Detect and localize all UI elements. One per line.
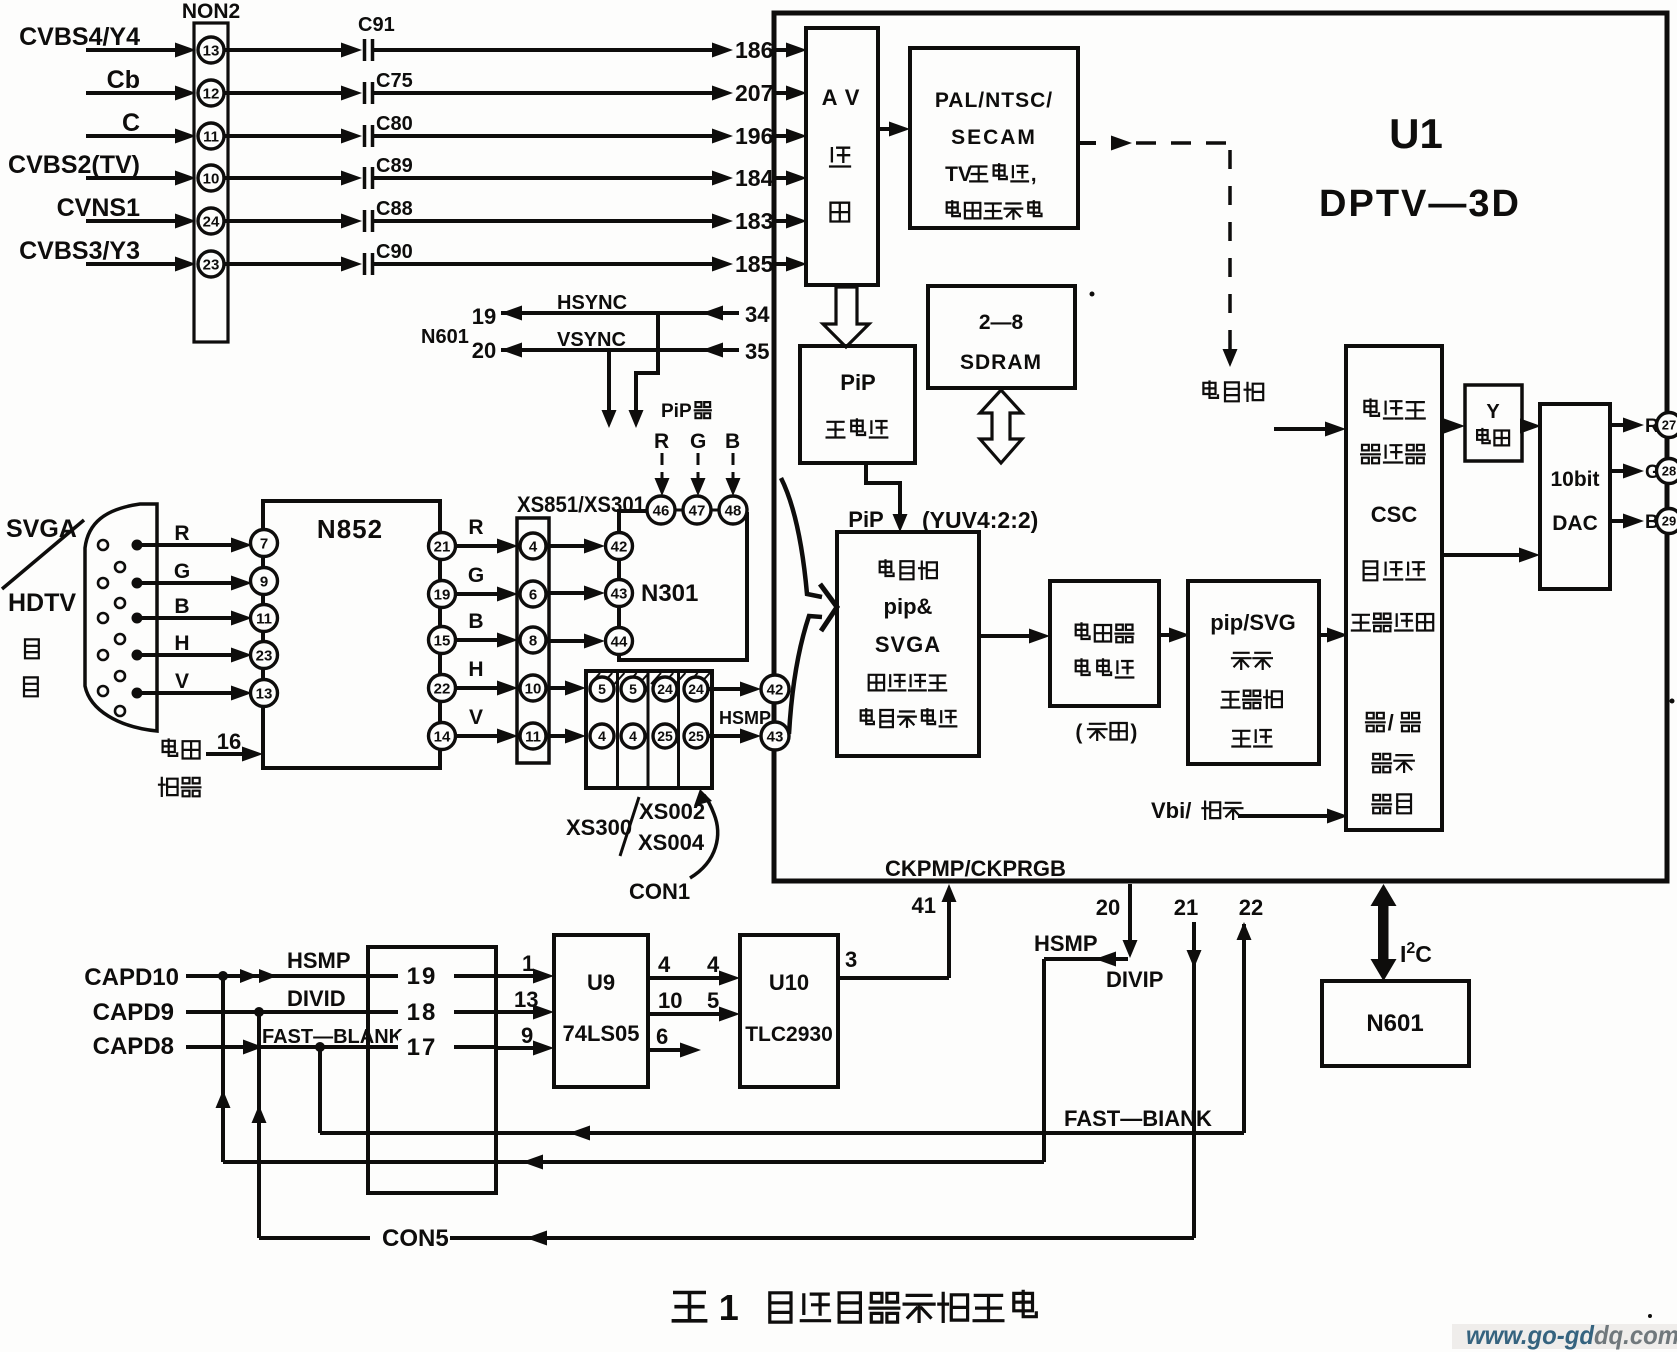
svg-text:10bit: 10bit: [1550, 468, 1599, 491]
svg-text:CVNS1: CVNS1: [57, 194, 140, 222]
svg-text:C75: C75: [376, 70, 413, 92]
svg-text:DIVIP: DIVIP: [1106, 967, 1163, 992]
svg-text:R: R: [174, 522, 189, 545]
svg-text:DAC: DAC: [1552, 512, 1598, 535]
svg-text:I2C: I2C: [1400, 940, 1432, 967]
svg-text:196: 196: [735, 123, 773, 149]
svg-text:10: 10: [525, 680, 542, 697]
svg-text:5: 5: [707, 988, 719, 1013]
svg-text:SDRAM: SDRAM: [960, 351, 1042, 374]
svg-text:pip&: pip&: [884, 594, 933, 619]
svg-text:35: 35: [745, 339, 769, 364]
svg-text:/: /: [1388, 710, 1394, 735]
svg-text:R: R: [468, 516, 483, 539]
svg-text:15: 15: [434, 632, 451, 649]
svg-text:U10: U10: [769, 970, 809, 995]
svg-text:25: 25: [688, 728, 704, 744]
svg-text:19: 19: [434, 586, 451, 603]
svg-text:19: 19: [407, 963, 438, 990]
svg-text:N601: N601: [1366, 1010, 1423, 1037]
svg-text:19: 19: [472, 304, 496, 329]
svg-text:20: 20: [472, 338, 496, 363]
svg-text:TLC2930: TLC2930: [745, 1023, 833, 1046]
svg-text:HDTV: HDTV: [8, 589, 76, 617]
svg-text:PiP: PiP: [848, 507, 883, 532]
svg-text:24: 24: [657, 681, 673, 697]
svg-text:N301: N301: [641, 580, 698, 607]
svg-text:R: R: [654, 430, 669, 453]
svg-text:9: 9: [260, 573, 268, 590]
svg-text:41: 41: [912, 893, 936, 918]
svg-text:42: 42: [611, 538, 628, 555]
svg-text:SECAM: SECAM: [951, 126, 1037, 149]
svg-text:22: 22: [1239, 895, 1263, 920]
svg-text:N601: N601: [421, 326, 469, 348]
svg-text:1: 1: [522, 951, 534, 976]
svg-text:V: V: [469, 706, 483, 729]
svg-text:C90: C90: [376, 241, 413, 263]
svg-text:A V: A V: [822, 85, 861, 110]
svg-text:4: 4: [629, 728, 637, 744]
svg-text:7: 7: [260, 535, 268, 552]
svg-text:21: 21: [1174, 895, 1198, 920]
svg-text:23: 23: [203, 256, 220, 273]
svg-text:(YUV4:2:2): (YUV4:2:2): [922, 507, 1038, 533]
svg-text:42: 42: [767, 681, 784, 698]
svg-text:9: 9: [521, 1023, 533, 1048]
svg-text:): ): [1130, 721, 1137, 744]
svg-text:CSC: CSC: [1371, 502, 1418, 527]
svg-text:,: ,: [1031, 163, 1037, 186]
svg-text:DPTV—3D: DPTV—3D: [1319, 183, 1521, 225]
svg-text:184: 184: [735, 165, 774, 191]
svg-text:8: 8: [529, 632, 537, 649]
svg-text:HSMP: HSMP: [287, 948, 351, 973]
svg-text:H: H: [174, 632, 189, 655]
svg-text:23: 23: [256, 647, 273, 664]
svg-text:FAST—BIANK: FAST—BIANK: [1064, 1106, 1212, 1131]
svg-text:VSYNC: VSYNC: [557, 329, 626, 351]
svg-text:www.go-gddq.com: www.go-gddq.com: [1466, 1320, 1677, 1350]
svg-text:43: 43: [611, 585, 628, 602]
svg-text:SVGA: SVGA: [875, 632, 941, 657]
svg-text:186: 186: [735, 37, 773, 63]
svg-text:C80: C80: [376, 113, 413, 135]
svg-text:FAST—BLANK: FAST—BLANK: [262, 1026, 404, 1048]
svg-text:10: 10: [658, 988, 682, 1013]
svg-text:B: B: [468, 610, 483, 633]
svg-text:G: G: [468, 564, 484, 587]
svg-text:2—8: 2—8: [979, 311, 1024, 334]
svg-text:13: 13: [256, 685, 273, 702]
svg-text:185: 185: [735, 251, 774, 277]
svg-text:5: 5: [598, 681, 606, 697]
svg-text:HSMP: HSMP: [1034, 931, 1098, 956]
svg-text:Vbi/: Vbi/: [1151, 798, 1191, 823]
svg-text:11: 11: [256, 610, 272, 627]
svg-text:20: 20: [1096, 895, 1120, 920]
svg-text:HSMP: HSMP: [719, 708, 771, 728]
svg-text:11: 11: [525, 728, 541, 745]
svg-text:H: H: [468, 658, 483, 681]
svg-text:CVBS4/Y4: CVBS4/Y4: [19, 23, 140, 51]
svg-text:6: 6: [656, 1024, 668, 1049]
svg-text:Y: Y: [1486, 401, 1500, 423]
svg-text:C: C: [122, 109, 140, 137]
svg-text:CON1: CON1: [629, 879, 690, 904]
svg-text:4: 4: [658, 952, 671, 977]
svg-text:34: 34: [745, 302, 770, 327]
svg-text:16: 16: [217, 729, 241, 754]
svg-text:18: 18: [407, 999, 438, 1026]
svg-text:SVGA: SVGA: [6, 515, 77, 543]
svg-text:XS300: XS300: [566, 815, 632, 840]
svg-text:C91: C91: [358, 14, 395, 36]
svg-text:B: B: [725, 430, 740, 453]
svg-text:PiP: PiP: [840, 370, 875, 395]
svg-text:PAL/NTSC/: PAL/NTSC/: [935, 89, 1053, 112]
svg-text:29: 29: [1662, 514, 1676, 529]
svg-text:1: 1: [719, 1287, 739, 1328]
svg-text:28: 28: [1662, 464, 1676, 479]
svg-text:25: 25: [657, 728, 673, 744]
svg-text:C88: C88: [376, 198, 413, 220]
svg-text:G: G: [174, 560, 190, 583]
svg-text:3: 3: [845, 947, 857, 972]
svg-text:17: 17: [407, 1034, 438, 1061]
svg-text:Cb: Cb: [107, 66, 140, 94]
svg-text:13: 13: [203, 42, 220, 59]
svg-text:DIVID: DIVID: [287, 986, 346, 1011]
svg-text:CON5: CON5: [382, 1225, 449, 1252]
svg-text:U1: U1: [1389, 110, 1443, 157]
svg-text:207: 207: [735, 80, 773, 106]
svg-text:XS851/XS301: XS851/XS301: [517, 492, 645, 517]
svg-text:11: 11: [203, 128, 219, 145]
svg-text:4: 4: [707, 952, 720, 977]
svg-text:CAPD10: CAPD10: [84, 964, 179, 991]
svg-text:21: 21: [434, 538, 451, 555]
svg-text:13: 13: [514, 987, 538, 1012]
svg-text:43: 43: [767, 728, 784, 745]
svg-text:V: V: [175, 670, 189, 693]
svg-text:27: 27: [1662, 418, 1676, 433]
svg-text:CAPD9: CAPD9: [93, 999, 174, 1026]
svg-text:C89: C89: [376, 155, 413, 177]
svg-text:pip/SVG: pip/SVG: [1210, 610, 1296, 635]
svg-text:183: 183: [735, 208, 773, 234]
svg-text:24: 24: [203, 213, 220, 230]
svg-text:12: 12: [203, 85, 220, 102]
svg-text:47: 47: [689, 502, 706, 519]
svg-text:74LS05: 74LS05: [562, 1021, 639, 1046]
svg-text:5: 5: [629, 681, 637, 697]
svg-text:PiP: PiP: [661, 401, 692, 422]
svg-text:CKPMP/CKPRGB: CKPMP/CKPRGB: [885, 856, 1066, 881]
svg-text:24: 24: [688, 681, 704, 697]
svg-text:46: 46: [653, 502, 670, 519]
svg-text:44: 44: [611, 633, 628, 650]
svg-text:G: G: [690, 430, 706, 453]
svg-text:48: 48: [725, 502, 742, 519]
svg-text:U9: U9: [587, 970, 615, 995]
svg-text:NON2: NON2: [182, 0, 240, 23]
svg-text:(: (: [1075, 721, 1082, 744]
svg-text:4: 4: [598, 728, 606, 744]
svg-text:6: 6: [529, 586, 537, 603]
svg-text:22: 22: [434, 680, 451, 697]
svg-text:B: B: [174, 595, 189, 618]
svg-text:4: 4: [529, 538, 538, 555]
svg-text:10: 10: [203, 170, 220, 187]
svg-text:XS004: XS004: [638, 830, 705, 855]
svg-text:CVBS3/Y3: CVBS3/Y3: [19, 237, 140, 265]
svg-text:CAPD8: CAPD8: [93, 1033, 174, 1060]
svg-text:14: 14: [434, 728, 451, 745]
svg-text:HSYNC: HSYNC: [557, 292, 627, 314]
svg-text:CVBS2(TV): CVBS2(TV): [8, 151, 140, 179]
svg-text:N852: N852: [317, 514, 383, 544]
svg-text:TV: TV: [945, 163, 972, 186]
